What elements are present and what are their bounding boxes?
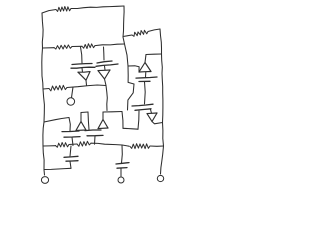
- wire: [71, 6, 124, 9]
- wire: [162, 54, 163, 123]
- wire: [70, 161, 71, 168]
- wire: [163, 123, 164, 147]
- diode D1: [78, 72, 90, 81]
- wire: [91, 143, 129, 146]
- terminal T2: [67, 98, 75, 105]
- wire: [42, 48, 43, 89]
- capacitor C4: [132, 104, 153, 110]
- wire: [125, 44, 129, 66]
- capacitor C7: [64, 156, 78, 161]
- wire: [43, 89, 44, 122]
- wire: [44, 168, 71, 169]
- wire: [72, 87, 74, 98]
- resistor R5: [49, 85, 67, 91]
- wire: [81, 111, 88, 114]
- wire: [81, 47, 83, 63]
- wire: [120, 168, 122, 176]
- wire: [123, 6, 124, 37]
- capacitor C8: [116, 163, 129, 169]
- wire: [123, 37, 125, 44]
- wire: [95, 44, 125, 46]
- diode D2: [98, 70, 110, 79]
- wire: [43, 146, 45, 175]
- wire: [123, 127, 138, 130]
- wire: [42, 10, 56, 14]
- wire: [70, 146, 71, 156]
- wire: [72, 137, 73, 145]
- wire: [128, 66, 139, 72]
- wire: [103, 47, 106, 60]
- wire: [144, 82, 147, 104]
- wire: [72, 45, 82, 47]
- wire: [85, 80, 88, 85]
- resistor R3: [54, 45, 72, 49]
- wire: [43, 145, 56, 147]
- wire: [94, 136, 97, 144]
- wire: [122, 112, 123, 129]
- wire: [103, 111, 122, 114]
- wire: [123, 35, 132, 37]
- capacitor C3: [136, 77, 157, 82]
- resistor R2: [132, 30, 148, 36]
- diode D4: [147, 113, 157, 122]
- wire: [80, 113, 82, 122]
- wire: [150, 145, 164, 147]
- wire: [67, 85, 106, 88]
- resistor R7: [77, 141, 91, 146]
- wire: [104, 66, 107, 70]
- capacitor C2: [96, 61, 118, 66]
- wire: [69, 118, 70, 131]
- terminal T1: [41, 177, 48, 184]
- wire: [43, 47, 55, 49]
- wire: [128, 84, 135, 110]
- wire: [43, 122, 44, 146]
- resistor R6: [56, 143, 70, 148]
- wire: [44, 118, 69, 123]
- wire: [145, 55, 146, 63]
- wire: [146, 53, 162, 56]
- terminal T4: [157, 175, 163, 181]
- wire: [148, 29, 160, 32]
- diode D5: [76, 122, 86, 131]
- resistor R4: [82, 44, 95, 49]
- wire: [88, 112, 89, 130]
- wire: [151, 110, 152, 114]
- wire: [145, 72, 147, 77]
- wire: [160, 29, 162, 54]
- capacitor C6: [85, 130, 103, 136]
- resistor R8: [130, 144, 150, 149]
- terminal T3: [118, 177, 124, 183]
- diode D3: [139, 63, 151, 73]
- diode D6: [98, 120, 108, 129]
- wire: [161, 146, 164, 174]
- wire: [69, 143, 77, 146]
- wire: [105, 79, 107, 86]
- capacitor C1: [71, 64, 95, 69]
- wire: [138, 111, 139, 129]
- wire: [152, 122, 163, 124]
- wire: [42, 13, 43, 48]
- wire: [121, 145, 124, 163]
- wire: [43, 88, 49, 91]
- resistor R1: [56, 7, 71, 12]
- wire: [128, 66, 134, 84]
- wire: [106, 86, 107, 111]
- wire: [102, 112, 104, 120]
- wire: [81, 68, 84, 72]
- capacitor C5: [62, 131, 80, 137]
